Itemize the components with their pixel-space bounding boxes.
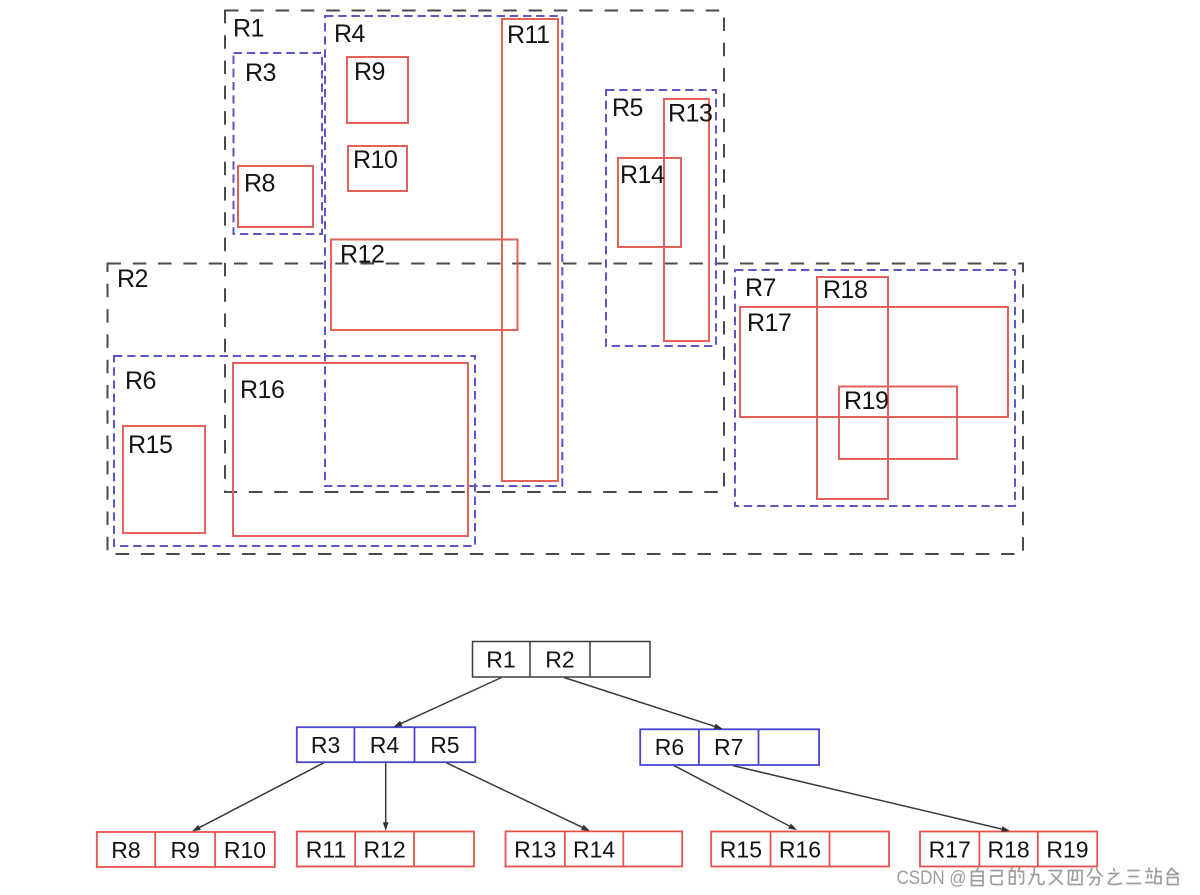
svg-text:R7: R7 [745, 274, 776, 302]
rect R18 [817, 276, 888, 499]
rect R15 [123, 426, 205, 533]
rect R2 (black dashed) [108, 264, 1024, 555]
svg-text:R6: R6 [125, 367, 156, 395]
svg-text:R15: R15 [128, 431, 172, 459]
svg-text:R9: R9 [354, 58, 385, 86]
svg-text:R4: R4 [370, 732, 400, 758]
rect R4 (blue dashed) [325, 16, 562, 486]
svg-text:R5: R5 [430, 732, 459, 758]
rect R13 [664, 99, 712, 341]
rect R16 [233, 363, 468, 536]
rect R11 [502, 19, 558, 481]
svg-text:R16: R16 [779, 837, 821, 863]
svg-text:R13: R13 [668, 100, 712, 128]
svg-text:R5: R5 [612, 94, 643, 122]
rect R1 (black dashed) [225, 11, 724, 493]
glyph 己 [991, 871, 1002, 885]
svg-text:R12: R12 [363, 837, 405, 863]
svg-text:R2: R2 [545, 647, 574, 673]
glyph 三 [1127, 871, 1141, 884]
rect R12 [331, 240, 518, 331]
svg-text:R15: R15 [720, 837, 762, 863]
tree leaf [R17|R18|R19] [920, 832, 1097, 867]
svg-text:R10: R10 [353, 146, 397, 174]
svg-text:R12: R12 [340, 241, 384, 269]
svg-text:R13: R13 [514, 837, 556, 863]
svg-text:R19: R19 [844, 387, 888, 415]
rect R17 [740, 307, 1008, 417]
rect R9 [347, 57, 408, 123]
svg-text:R11: R11 [306, 837, 347, 863]
watermark CJK glyphs (hand drawn) [972, 868, 1179, 886]
rect R6 (blue dashed) [114, 356, 475, 546]
svg-text:R4: R4 [334, 20, 366, 48]
svg-text:R6: R6 [655, 734, 684, 760]
tree leaf [R15|R16|empty] [711, 832, 889, 867]
glyph 自 [972, 868, 984, 886]
svg-text:R11: R11 [507, 21, 550, 49]
glyph 的 [1010, 868, 1024, 884]
svg-text:R9: R9 [170, 837, 199, 863]
tree leaf [R8|R9|R10] [97, 832, 275, 867]
rect R8 [238, 166, 313, 227]
svg-text:R7: R7 [714, 734, 743, 760]
glyph 分 [1088, 869, 1103, 886]
svg-text:R17: R17 [929, 837, 971, 863]
tree leaf [R13|R14|empty] [506, 831, 683, 866]
svg-text:R19: R19 [1046, 837, 1088, 863]
arrow node R4 -> leaf [R11 R12] [383, 763, 389, 831]
svg-text:R8: R8 [244, 170, 275, 198]
glyph 四 [1069, 871, 1083, 885]
arrow node R6 -> leaf [R15 R16] [674, 766, 797, 830]
svg-text:R3: R3 [245, 59, 276, 87]
tree node root [R1|R2|empty] [473, 642, 651, 678]
glyph 又 [1049, 871, 1063, 885]
svg-text:R3: R3 [311, 732, 340, 758]
svg-text:R17: R17 [747, 309, 791, 337]
glyph 九 [1029, 868, 1044, 885]
svg-text:R1: R1 [233, 15, 264, 43]
tree node internal [R3|R4|R5] [297, 727, 476, 762]
svg-text:CSDN @: CSDN @ [897, 867, 967, 889]
tree leaf [R11|R12|empty] [297, 832, 474, 867]
tree node internal [R6|R7|empty] [640, 729, 819, 765]
glyph 台 [1167, 868, 1179, 885]
arrow root R2 -> node [R6 R7] [564, 678, 723, 730]
svg-text:R8: R8 [111, 837, 140, 863]
rect R19 [839, 387, 957, 460]
rect R14 [618, 158, 681, 247]
rect R10 [348, 146, 407, 191]
arrow root R1 -> node [R3 R4 R5] [394, 678, 502, 728]
svg-text:R10: R10 [224, 837, 266, 863]
svg-text:R18: R18 [987, 837, 1029, 863]
rect R3 (blue dashed) [234, 53, 323, 234]
arrow node R3 -> leaf [R8 R9 R10] [192, 763, 324, 832]
arrow node R7 -> leaf [R17 R18 R19] [733, 766, 1010, 832]
svg-text:R14: R14 [573, 837, 615, 863]
svg-text:R14: R14 [620, 161, 665, 189]
svg-text:R16: R16 [240, 376, 284, 404]
rect R7 (blue dashed) [735, 270, 1015, 506]
rect R5 (blue dashed) [606, 90, 716, 346]
svg-text:R1: R1 [486, 647, 515, 673]
glyph 站 [1146, 868, 1162, 884]
arrow node R5 -> leaf [R13 R14] [446, 763, 590, 831]
svg-text:R2: R2 [117, 265, 148, 293]
svg-text:R18: R18 [823, 276, 867, 304]
glyph 之 [1108, 869, 1122, 885]
